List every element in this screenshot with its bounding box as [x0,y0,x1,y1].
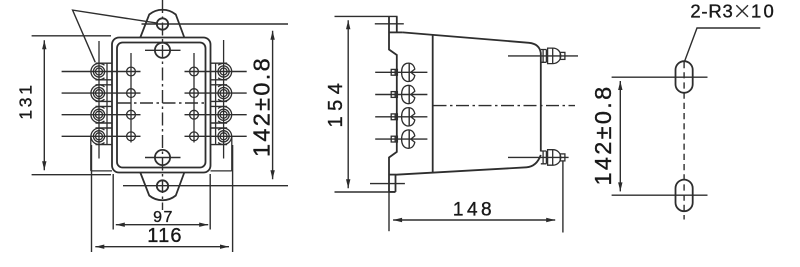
svg-text:97: 97 [153,209,174,226]
svg-text:2-R3: 2-R3 [690,1,733,22]
svg-text:10: 10 [751,1,776,22]
svg-text:142±0.8: 142±0.8 [590,85,616,186]
svg-text:148: 148 [453,200,495,221]
svg-text:131: 131 [16,82,36,119]
svg-text:154: 154 [325,78,347,128]
svg-text:116: 116 [147,225,183,247]
svg-text:142±0.8: 142±0.8 [249,56,275,157]
